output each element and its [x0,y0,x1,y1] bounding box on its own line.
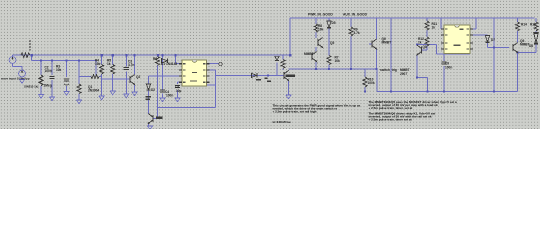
svg-text:D7: D7 [491,38,495,42]
svg-text:MMBT: MMBT [304,52,314,56]
svg-text:switch_trig: switch_trig [380,68,397,72]
svg-text:tc=100nTrise: tc=100nTrise [273,120,292,124]
svg-text:4.7n: 4.7n [128,63,134,67]
svg-text:SINE(0 1k): SINE(0 1k) [24,85,38,89]
svg-text:D8: D8 [529,44,533,48]
svg-text:10k: 10k [95,62,101,66]
svg-text:Q8: Q8 [423,45,427,49]
svg-text:D2: D2 [151,88,155,92]
svg-text:100n: 100n [166,94,173,98]
svg-text:wave input 100mVpp: wave input 100mVpp [0,77,30,81]
svg-text:+ 2.5m pulse train, timer, set: + 2.5m pulse train, timer, set at [369,106,413,110]
svg-text:4.7k: 4.7k [354,31,360,35]
svg-text:AUX_IN_GOOD: AUX_IN_GOOD [343,13,368,17]
svg-text:D1 1N4148: D1 1N4148 [161,62,177,66]
svg-text:Q2: Q2 [136,75,140,79]
svg-text:R6: R6 [153,57,157,61]
svg-text:+ 2.5m pulse train, timer set: + 2.5m pulse train, timer set at [369,118,412,122]
svg-text:100k: 100k [368,81,375,85]
svg-text:1Meg: 1Meg [44,84,52,88]
svg-text:R15: R15 [530,23,536,27]
svg-text:1k: 1k [107,62,111,66]
svg-text:100n: 100n [445,66,452,70]
svg-text:D5: D5 [332,21,336,25]
svg-text:2907: 2907 [400,72,407,76]
svg-text:1k: 1k [432,26,436,30]
svg-text:10µ: 10µ [176,89,182,93]
svg-text:1k: 1k [418,41,422,45]
svg-text:10k: 10k [335,59,341,63]
svg-text:Q5: Q5 [330,41,334,45]
svg-text:10k: 10k [56,68,62,72]
svg-text:MMBT: MMBT [382,41,392,45]
svg-text:2N3904: 2N3904 [88,89,99,93]
svg-text:PWR_IN_GOOD: PWR_IN_GOOD [308,13,333,17]
svg-text:R14: R14 [521,23,527,27]
svg-text:10k: 10k [318,28,324,32]
svg-text:+ 2.5m pulse train, set rail h: + 2.5m pulse train, set rail high [273,110,317,114]
svg-text:100n: 100n [45,69,52,73]
